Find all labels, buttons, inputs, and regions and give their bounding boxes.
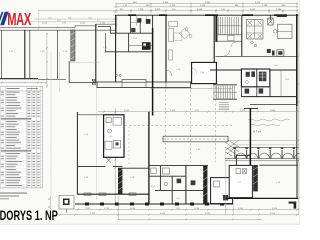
- staircase landing lines: [216, 34, 243, 36]
- staircase treads: [218, 17, 241, 35]
- arcade arches: [236, 153, 300, 158]
- svg-text:1,760: 1,760: [262, 5, 268, 7]
- svg-text:5,440: 5,440: [250, 9, 256, 11]
- top dimension line 2: [116, 6, 298, 8]
- left wing top wall: [0, 29, 116, 31]
- thick south wall bar: [97, 82, 191, 88]
- svg-text:MAX: MAX: [7, 10, 31, 30]
- staircase east wall: [241, 16, 243, 56]
- utility block lower h wall: [105, 51, 152, 53]
- utility thin lines: [135, 15, 137, 26]
- svg-text:2,980: 2,980: [276, 9, 282, 11]
- bathroom second row: [241, 96, 297, 98]
- wall x250 vertical: [249, 108, 251, 165]
- logo RE/MAX blue slash: [0, 12, 8, 25]
- bl wing west wall: [76, 112, 78, 194]
- bl wing east wall: [148, 112, 150, 204]
- x115 tick column: [114, 7, 118, 24]
- left wing bottom wall west: [0, 78, 38, 80]
- svg-text:3,120: 3,120: [255, 2, 261, 4]
- room 1.12 fixtures: [106, 118, 111, 123]
- office small fixtures south: [251, 41, 254, 44]
- svg-text:1,740: 1,740: [104, 208, 110, 210]
- top dimension line 3: [38, 10, 298, 12]
- legend table header lines: [0, 90, 43, 92]
- arcade top line: [233, 144, 299, 146]
- cluster h wall y176: [149, 175, 186, 177]
- right mid h wall y104: [250, 104, 297, 106]
- right mid corridor lines: [269, 69, 271, 97]
- left wing wall b: [24, 30, 26, 79]
- living room cabinet: [169, 50, 173, 60]
- svg-text:1.05: 1.05: [274, 65, 278, 67]
- left wing room labels: [9, 47, 108, 53]
- svg-text:2,410: 2,410: [240, 110, 246, 112]
- bl wing dashed x129: [128, 126, 130, 165]
- living room rug: [174, 33, 182, 40]
- svg-text:1.24: 1.24: [176, 198, 180, 200]
- br small top box: [236, 155, 250, 165]
- left wing bottom dim line: [0, 82, 46, 84]
- left wing pier dark: [71, 30, 75, 61]
- svg-text:PŮDORYS 1. NP: PŮDORYS 1. NP: [0, 204, 58, 223]
- legend table columns: [4, 86, 6, 187]
- svg-text:2,410: 2,410: [170, 5, 176, 7]
- utility fixtures dark: [137, 18, 141, 22]
- office desk 2: [278, 24, 293, 38]
- boundary tick text: [42, 22, 106, 24]
- svg-text:1,740: 1,740: [100, 22, 106, 24]
- left dim line: [46, 33, 48, 88]
- utility block lower wall v: [128, 33, 130, 52]
- arcade bottom line: [225, 158, 299, 160]
- legend table rows: [0, 94, 43, 187]
- svg-text:4,120: 4,120: [205, 213, 211, 215]
- door cross at bar west end: [92, 79, 95, 84]
- svg-text:2,240: 2,240: [80, 22, 86, 24]
- door cross below room 1.12: [106, 158, 111, 163]
- br fixture bottom: [289, 202, 297, 204]
- living room west wall: [165, 16, 167, 82]
- bl wing h wall y166: [77, 165, 106, 167]
- room 1.06 door: [192, 68, 197, 73]
- br south wall: [225, 197, 298, 199]
- svg-text:3,280: 3,280: [124, 110, 130, 112]
- svg-text:1,455: 1,455: [163, 2, 169, 4]
- svg-text:1,660: 1,660: [238, 208, 244, 210]
- courtyard dim numbers: [124, 110, 276, 112]
- svg-text:2,510: 2,510: [42, 22, 48, 24]
- courtyard mid dim line: [98, 111, 299, 113]
- utility block wall v1: [115, 15, 117, 33]
- bathroom part wall: [256, 69, 258, 87]
- hall lower wall: [210, 69, 297, 71]
- boundary ticks: [38, 26, 117, 28]
- svg-text:1.22: 1.22: [151, 186, 155, 188]
- wall x250 top tee: [244, 107, 258, 109]
- br room A fixtures: [214, 181, 220, 187]
- living room east wall: [213, 16, 215, 62]
- br big room walls: [259, 164, 298, 166]
- cluster wall v186: [185, 166, 187, 204]
- left wing wall d: [57, 30, 59, 79]
- svg-text:3,95: 3,95: [57, 20, 61, 22]
- top dimension line 1: [116, 3, 298, 5]
- hatched strip right: [253, 165, 258, 191]
- bl wing thin dim x96: [95, 88, 97, 200]
- utility mid line: [129, 45, 153, 47]
- office chair crosses: [248, 21, 263, 39]
- south outer wall: [75, 203, 233, 205]
- office radiators: [277, 16, 287, 18]
- stepped boundary wall left wing: [0, 24, 116, 27]
- utility block wall v3: [139, 19, 141, 33]
- svg-text:1,200: 1,200: [200, 5, 206, 7]
- cluster fixtures: [151, 168, 156, 173]
- legend notes: [0, 192, 27, 195]
- svg-text:2,140: 2,140: [170, 110, 176, 112]
- room B fixtures: [236, 169, 241, 174]
- stairs2 side walls: [213, 84, 237, 86]
- bl wing h wall y168: [118, 167, 149, 169]
- svg-text:3,250: 3,250: [138, 9, 144, 11]
- left wing bottom wall mid: [38, 78, 66, 80]
- second row fixtures: [245, 89, 250, 94]
- svg-text:3,880: 3,880: [270, 110, 276, 112]
- office chair 2: [273, 30, 277, 34]
- spine wall x152: [152, 28, 154, 116]
- north outer wall: [116, 14, 299, 16]
- upper boundary dim lines: [34, 18, 116, 20]
- arcade posts: [234, 147, 295, 158]
- cluster hatched east strip: [203, 166, 207, 204]
- room 1.12 walls: [104, 115, 124, 158]
- hatched column: [268, 18, 274, 25]
- bathroom fixtures: [246, 72, 250, 77]
- living room door arc: [166, 70, 172, 76]
- svg-text:A 7 c4: A 7 c4: [253, 130, 262, 134]
- east outer wall lower: [296, 106, 298, 160]
- south wall bar step: [122, 80, 146, 83]
- left wing wall a: [0, 30, 2, 79]
- left wing wall f: [115, 15, 117, 82]
- stove block dark: [142, 42, 151, 50]
- br room A walls: [211, 178, 233, 204]
- courtyard dashed beams vertical: [165, 90, 167, 162]
- cross hatch block: [225, 140, 239, 156]
- utility block h wall: [110, 32, 153, 34]
- utility block wall v2: [130, 15, 132, 33]
- living room table: [179, 28, 189, 38]
- utility block step wall: [98, 27, 111, 33]
- office short wall: [270, 15, 272, 20]
- svg-text:6,240: 6,240: [270, 213, 276, 215]
- living room chairs: [185, 28, 188, 31]
- bl wing top thin wall: [77, 114, 103, 116]
- north wall window lintels: [128, 14, 136, 16]
- svg-text:C: C: [48, 197, 50, 201]
- courtyard dim line: [150, 88, 232, 90]
- top dimension ticks: [115, 3, 298, 13]
- stairs2 ladder below: [219, 103, 229, 110]
- svg-text:3,590: 3,590: [272, 208, 278, 210]
- handwritten annotation: [248, 119, 290, 121]
- sheet edge lines: [38, 10, 40, 30]
- left wing wall c: [29, 30, 31, 79]
- left dim verticals x51 x59: [50, 52, 52, 196]
- svg-text:4,980: 4,980: [197, 9, 203, 11]
- bottom dim line 1: [75, 209, 299, 211]
- hall small box: [228, 36, 235, 41]
- south wall bar divisions: [121, 82, 123, 88]
- top dimension numbers: [120, 2, 286, 11]
- bl wing dim spine: [114, 108, 116, 205]
- legend table text bars: [1, 88, 40, 186]
- room 1.06 walls: [192, 62, 217, 83]
- left wing wall e: [95, 24, 97, 82]
- svg-text:8,310: 8,310: [160, 213, 166, 215]
- right dim ticks: [298, 14, 300, 210]
- bottom dim line 3: [118, 218, 262, 220]
- courtyard dashed beam horizontal: [116, 125, 232, 127]
- cluster top wall: [149, 165, 208, 167]
- drain circles: [116, 75, 118, 77]
- office meeting table: [247, 20, 264, 40]
- staircase west cheek wall: [215, 16, 217, 42]
- cluster wall v160: [159, 166, 161, 191]
- pergola beam strip: [163, 136, 228, 142]
- wall above arches: [230, 140, 299, 142]
- cluster wall v172: [171, 176, 173, 204]
- east outer wall: [296, 14, 298, 106]
- title PUDORYS 1. NP: [0, 204, 58, 223]
- bottom dim line 2: [58, 214, 299, 216]
- svg-text:7,120: 7,120: [90, 213, 96, 215]
- bathroom outer walls: [241, 69, 269, 87]
- svg-text:1.04: 1.04: [285, 79, 289, 81]
- svg-text:2,610: 2,610: [155, 9, 161, 11]
- hall south wall: [216, 55, 298, 57]
- stairs2 treads: [213, 86, 237, 99]
- svg-text:2,40: 2,40: [88, 17, 92, 19]
- utility v wall x105: [104, 33, 106, 52]
- bottom dim numbers 2: [90, 213, 276, 215]
- bl wing hatched pier: [118, 168, 122, 194]
- living room furniture sofa: [169, 21, 178, 26]
- svg-text:2,15: 2,15: [48, 17, 52, 19]
- upper boundary tiny text: [48, 17, 100, 22]
- south wall piers: [85, 203, 224, 206]
- svg-text:2,030: 2,030: [194, 208, 200, 210]
- cluster h wall y190: [155, 189, 203, 191]
- legend table frame: [0, 86, 43, 187]
- hall door arcs: [224, 51, 230, 57]
- svg-text:2,330: 2,330: [205, 2, 211, 4]
- bottom dim connectors: [118, 196, 120, 220]
- detail box right of title: [59, 196, 74, 210]
- top dim extension lines: [131, 11, 283, 15]
- svg-text:3,060: 3,060: [130, 208, 136, 210]
- bl wing rooms bottom wall: [77, 193, 149, 195]
- br room B walls: [229, 165, 252, 197]
- title side dim C: [49, 196, 51, 209]
- bottom dim numbers 1: [85, 208, 278, 210]
- bl wing window sills: [84, 193, 136, 196]
- svg-text:1,80: 1,80: [68, 17, 72, 19]
